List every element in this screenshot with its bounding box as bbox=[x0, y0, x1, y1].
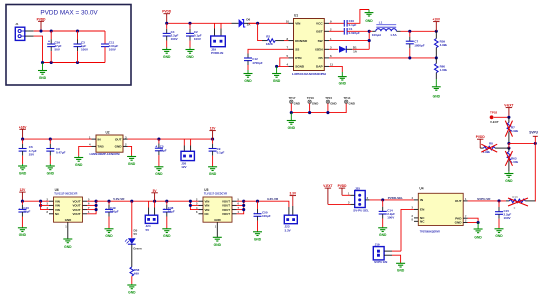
svg-text:GND: GND bbox=[505, 179, 513, 183]
power flag 5V bbox=[151, 189, 157, 201]
ground (U4 GND) bbox=[474, 223, 483, 240]
capacitor C40 bbox=[18, 201, 30, 227]
capacitor C10 bbox=[344, 19, 356, 27]
U2 pin stubs and numbers bbox=[89, 135, 128, 146]
svg-text:ISEN: ISEN bbox=[315, 48, 323, 52]
svg-text:R8: R8 bbox=[489, 141, 493, 145]
power flag PVDD (divider) bbox=[476, 135, 486, 148]
node dots OUT rail bbox=[157, 138, 160, 141]
capacitor C3 bbox=[74, 31, 89, 63]
svg-text:VOUT: VOUT bbox=[72, 212, 80, 216]
wire U2 GND pin to ground bbox=[128, 146, 132, 155]
wire U2 OUT rail bbox=[128, 138, 213, 140]
svg-text:25V: 25V bbox=[29, 153, 34, 157]
power flag PVDD (bottom) bbox=[338, 184, 348, 195]
svg-text:GND: GND bbox=[474, 236, 482, 240]
node dots FB bbox=[408, 56, 411, 59]
J1 pin stubs bbox=[25, 30, 34, 32]
resistor R16 (DNP) bbox=[506, 195, 535, 210]
node dots 5V rail bbox=[107, 200, 110, 203]
svg-text:GND: GND bbox=[433, 95, 441, 99]
wire TAB to ground bbox=[79, 146, 92, 156]
node dots SW bbox=[368, 30, 371, 33]
node dot bbox=[256, 22, 259, 25]
ground (C15) bbox=[495, 228, 504, 238]
IC U5 3.3V regulator bbox=[203, 188, 232, 222]
wire +16V rail bbox=[23, 138, 92, 140]
wire bottom rail in box bbox=[43, 62, 106, 64]
svg-text:100V: 100V bbox=[504, 216, 511, 220]
node dots output bbox=[408, 30, 411, 33]
svg-text:GND: GND bbox=[128, 162, 136, 166]
node dots divider bbox=[507, 142, 510, 145]
capacitor C11 bbox=[101, 41, 118, 52]
svg-text:R2: R2 bbox=[266, 34, 270, 38]
svg-text:SVPU: SVPU bbox=[529, 131, 538, 135]
capacitor C1 bbox=[344, 27, 360, 35]
resistor R2 182K bbox=[262, 34, 289, 46]
svg-text:VOUT: VOUT bbox=[222, 212, 230, 216]
svg-text:100V: 100V bbox=[171, 37, 178, 41]
ground (C6) bbox=[18, 164, 27, 175]
svg-text:GND: GND bbox=[349, 101, 355, 105]
svg-text:100µH: 100µH bbox=[372, 33, 381, 37]
svg-text:RON/SD: RON/SD bbox=[295, 39, 308, 43]
test point TP17 bbox=[289, 96, 300, 105]
capacitor C8 bbox=[46, 139, 65, 164]
power flag PVDD bbox=[162, 10, 172, 24]
capacitor C15 bbox=[495, 201, 511, 228]
svg-text:NC: NC bbox=[420, 219, 425, 223]
svg-text:100V: 100V bbox=[194, 37, 201, 41]
ground (test rail) bbox=[287, 113, 296, 130]
svg-text:GND: GND bbox=[214, 243, 222, 247]
svg-text:GND: GND bbox=[163, 55, 171, 59]
svg-text:GND: GND bbox=[105, 234, 113, 238]
node dots bbox=[21, 138, 24, 141]
svg-text:U5: U5 bbox=[204, 188, 208, 192]
svg-text:V-EXT: V-EXT bbox=[504, 104, 513, 108]
svg-text:EN: EN bbox=[420, 208, 425, 212]
svg-text:47µF: 47µF bbox=[160, 148, 167, 152]
svg-text:100V: 100V bbox=[109, 48, 116, 52]
net label SVPU bbox=[529, 131, 538, 144]
wire top rail in box bbox=[34, 30, 105, 32]
inductor L1 bbox=[369, 21, 397, 37]
diode D6 bbox=[232, 18, 258, 28]
wire EN down to J19 bbox=[401, 209, 414, 251]
wire U5 outputs join bbox=[237, 201, 244, 214]
resistor R60 bbox=[435, 58, 448, 79]
connector J23 3.3V bbox=[284, 206, 297, 232]
power flag 12V bbox=[209, 127, 216, 140]
wire test point rail bbox=[291, 104, 346, 113]
ground (C8) bbox=[46, 164, 55, 175]
capacitor C38 bbox=[163, 201, 175, 228]
capacitor C7 bbox=[406, 31, 425, 58]
node dot bbox=[477, 221, 480, 224]
svg-text:Green: Green bbox=[133, 247, 142, 251]
U1 left pin stubs and numbers bbox=[286, 20, 294, 67]
power flag 12V (bottom) bbox=[19, 188, 26, 201]
resistor R8 (DNP) bbox=[480, 141, 509, 154]
wire PAD/GND to ground bbox=[468, 218, 479, 222]
ground (C9) bbox=[208, 166, 217, 176]
wire down to R2 bbox=[258, 23, 262, 40]
svg-text:GND: GND bbox=[339, 81, 347, 85]
wire J25 pin2 to U4 IN bbox=[369, 199, 414, 201]
ground (C10) bbox=[365, 10, 374, 23]
svg-text:0.1µF: 0.1µF bbox=[217, 150, 225, 154]
svg-text:4.99k: 4.99k bbox=[511, 129, 519, 133]
wire U4 OUT rail bbox=[468, 200, 507, 202]
svg-text:OUT: OUT bbox=[455, 199, 462, 203]
wire 12V rail to U6 bbox=[22, 200, 49, 202]
test point TP15 bbox=[325, 96, 336, 105]
svg-text:TP15: TP15 bbox=[325, 96, 332, 100]
svg-text:R16: R16 bbox=[512, 195, 518, 199]
ground (U5 GND pin) bbox=[213, 222, 222, 247]
svg-text:GND: GND bbox=[330, 101, 336, 105]
svg-text:100µF: 100µF bbox=[110, 210, 119, 214]
wire BST to C1 bbox=[329, 30, 344, 32]
svg-text:10µF: 10µF bbox=[168, 210, 175, 214]
node dot bbox=[507, 116, 510, 119]
svg-text:1.5A: 1.5A bbox=[390, 33, 397, 37]
svg-text:L1: L1 bbox=[379, 21, 383, 25]
svg-text:GND: GND bbox=[209, 172, 217, 176]
ground (TAB) bbox=[74, 156, 83, 167]
svg-text:TP52: TP52 bbox=[490, 110, 498, 114]
node dots U6 out bbox=[95, 200, 98, 203]
wire J1 pin2 to bottom rail bbox=[34, 36, 43, 62]
wire C1 to SW node bbox=[347, 30, 369, 32]
wire into U5 bbox=[190, 201, 198, 209]
svg-text:SVPU EN: SVPU EN bbox=[374, 260, 387, 264]
power flag 3.3V bbox=[290, 192, 297, 206]
node dots bottom rail bbox=[41, 61, 44, 64]
ground (C4) bbox=[162, 48, 171, 59]
wire U6 outputs join bbox=[87, 201, 96, 214]
power flag +10V bbox=[433, 18, 441, 32]
connector J29 PVDD-IN bbox=[211, 23, 226, 55]
ground (J19) bbox=[396, 263, 405, 273]
ground (C2) bbox=[186, 48, 195, 59]
wire TP52 to node bbox=[494, 116, 509, 118]
svg-text:SS: SS bbox=[295, 48, 299, 52]
svg-text:PVDD-IN: PVDD-IN bbox=[211, 51, 223, 55]
svg-text:GND: GND bbox=[186, 55, 194, 59]
svg-text:GND: GND bbox=[273, 79, 281, 83]
test point TP14 bbox=[344, 96, 355, 105]
node dot bbox=[275, 65, 278, 68]
wire SW to node bbox=[329, 40, 369, 42]
wire U6 input bends bbox=[41, 201, 49, 209]
capacitor C2 bbox=[186, 23, 202, 47]
svg-text:499: 499 bbox=[134, 272, 139, 276]
svg-text:GND: GND bbox=[312, 101, 318, 105]
svg-text:GND: GND bbox=[163, 234, 171, 238]
ground (C14) bbox=[378, 227, 387, 237]
capacitor C50 bbox=[254, 201, 271, 231]
IC U4 TPS7B69 bbox=[418, 186, 463, 233]
capacitor C9 bbox=[209, 139, 225, 166]
connector J25 SV-PU SEL bbox=[348, 186, 369, 212]
svg-text:OUT: OUT bbox=[115, 137, 122, 141]
svg-text:TP16: TP16 bbox=[307, 96, 314, 100]
capacitor C59 bbox=[47, 31, 61, 63]
svg-text:5V: 5V bbox=[146, 228, 150, 232]
wire SS to C12 bbox=[248, 49, 289, 53]
svg-text:3.3V-VR: 3.3V-VR bbox=[267, 197, 279, 201]
svg-text:GND: GND bbox=[64, 245, 72, 249]
svg-text:100µF: 100µF bbox=[262, 214, 271, 218]
ground (C38) bbox=[162, 228, 171, 238]
svg-text:LM2940IMP-12/NOPB: LM2940IMP-12/NOPB bbox=[90, 152, 121, 156]
power flag PVDD (in box) bbox=[37, 17, 47, 31]
svg-text:3.3V: 3.3V bbox=[290, 192, 297, 196]
svg-text:4.99k: 4.99k bbox=[440, 43, 448, 47]
svg-text:VCC: VCC bbox=[316, 22, 323, 26]
svg-text:TP17: TP17 bbox=[289, 96, 296, 100]
svg-text:12V: 12V bbox=[181, 165, 186, 169]
svg-text:GND: GND bbox=[128, 290, 136, 294]
svg-text:GND: GND bbox=[379, 233, 387, 237]
svg-text:+: + bbox=[48, 39, 50, 43]
svg-text:GND: GND bbox=[244, 79, 252, 83]
ground (R58) bbox=[127, 284, 136, 294]
wire right loop C11 bbox=[104, 31, 106, 63]
svg-text:J25: J25 bbox=[355, 186, 360, 190]
svg-text:PVDD: PVDD bbox=[338, 184, 348, 188]
wire 5V rail bbox=[96, 200, 190, 202]
wire 3.3V rail bbox=[244, 201, 289, 207]
ground (C5) bbox=[154, 166, 163, 176]
svg-text:+10V: +10V bbox=[433, 18, 441, 22]
svg-text:SGND: SGND bbox=[295, 65, 305, 69]
IC U2 LM2940 bbox=[90, 130, 124, 156]
svg-text:VIN: VIN bbox=[295, 22, 301, 26]
svg-text:3.3V: 3.3V bbox=[285, 228, 291, 232]
power flag V-EXT (bottom) bbox=[323, 184, 332, 204]
svg-text:GND: GND bbox=[19, 171, 27, 175]
node dots bbox=[21, 200, 24, 203]
ground (C40) bbox=[18, 227, 27, 237]
svg-text:1.00k: 1.00k bbox=[440, 68, 448, 72]
diode D1 bbox=[329, 46, 369, 54]
IC U6 5V regulator bbox=[54, 188, 83, 222]
svg-text:SW: SW bbox=[318, 39, 323, 43]
node dot SVPU bbox=[534, 142, 537, 145]
node dots U5 out bbox=[242, 200, 245, 203]
svg-text:182K: 182K bbox=[266, 42, 274, 46]
svg-text:50V: 50V bbox=[55, 48, 60, 52]
resistor R59 bbox=[435, 31, 448, 58]
svg-text:GND: GND bbox=[495, 234, 503, 238]
U4 pin stubs and numbers bbox=[412, 196, 468, 223]
resistor R63 (DNP) bbox=[505, 148, 518, 171]
svg-text:PVDD: PVDD bbox=[476, 135, 486, 139]
svg-text:RTN: RTN bbox=[295, 56, 302, 60]
svg-text:PVDD: PVDD bbox=[37, 17, 47, 21]
wire DAP to ground bbox=[329, 66, 342, 72]
wire L1 to +10V node bbox=[397, 30, 401, 32]
svg-text:DAP: DAP bbox=[316, 65, 323, 69]
capacitor C49 bbox=[105, 201, 119, 228]
svg-text:10: 10 bbox=[286, 20, 290, 24]
wire J19 pin1 to EN riser bbox=[392, 250, 401, 252]
svg-text:PVDD MAX = 30.0V: PVDD MAX = 30.0V bbox=[40, 10, 98, 17]
connector J24 5V bbox=[145, 201, 157, 232]
svg-text:4700pF: 4700pF bbox=[252, 61, 263, 65]
resistor R7 (DNP) bbox=[505, 117, 518, 143]
svg-text:TLV1117-50CDCYR: TLV1117-50CDCYR bbox=[54, 192, 77, 196]
svg-text:100V: 100V bbox=[81, 48, 88, 52]
wire V-EXT to J25 pin3 bbox=[328, 203, 351, 205]
svg-text:U6: U6 bbox=[55, 188, 59, 192]
resistor R58 bbox=[130, 267, 140, 284]
svg-text:GND: GND bbox=[19, 233, 27, 237]
U5 pin stubs and numbers bbox=[196, 197, 239, 214]
svg-text:TAB: TAB bbox=[98, 145, 105, 149]
svg-text:V-EXT: V-EXT bbox=[490, 120, 499, 124]
svg-text:U4: U4 bbox=[419, 186, 423, 190]
capacitor C4 bbox=[163, 23, 179, 47]
svg-text:LM5010ASD/NOPB: LM5010ASD/NOPB bbox=[292, 72, 326, 76]
ground (C49) bbox=[105, 228, 114, 238]
ground (SGND) bbox=[272, 66, 281, 82]
wire FB rail bbox=[329, 57, 436, 59]
svg-text:SVPU-VR: SVPU-VR bbox=[477, 197, 491, 201]
svg-text:TP14: TP14 bbox=[344, 96, 351, 100]
wire PVDD rail bbox=[167, 22, 232, 24]
ground (U2 GND) bbox=[127, 156, 136, 166]
wire to SVPU bbox=[509, 142, 535, 144]
wire C10 to ground bbox=[347, 10, 369, 24]
ground (C50) bbox=[253, 231, 262, 242]
svg-text:12V: 12V bbox=[210, 127, 217, 131]
wire PVDD to J25 pin1 bbox=[342, 194, 351, 196]
svg-text:GND: GND bbox=[254, 238, 262, 242]
power flag +16V bbox=[19, 125, 27, 139]
svg-text:V-EXT: V-EXT bbox=[323, 184, 332, 188]
node dot C50 bbox=[256, 200, 259, 203]
LED D5 bbox=[125, 201, 142, 267]
wire J19 pin2 to ground bbox=[392, 255, 401, 262]
svg-text:U2: U2 bbox=[106, 130, 110, 134]
svg-text:GND: GND bbox=[397, 269, 405, 273]
svg-text:GND: GND bbox=[365, 19, 373, 23]
svg-text:5.0V-VR: 5.0V-VR bbox=[113, 197, 125, 201]
wire RTN/SGND to ground bbox=[280, 58, 289, 67]
ground (C12) bbox=[244, 70, 253, 83]
svg-text:GND: GND bbox=[47, 171, 55, 175]
svg-text:GND: GND bbox=[214, 218, 220, 222]
svg-text:10µF: 10µF bbox=[23, 210, 30, 214]
node dots bbox=[165, 22, 168, 25]
svg-text:GND: GND bbox=[65, 218, 71, 222]
capacitor C12 bbox=[244, 57, 263, 70]
svg-text:GND: GND bbox=[455, 221, 463, 225]
svg-text:GND: GND bbox=[294, 101, 300, 105]
node dots test rail bbox=[290, 111, 293, 114]
note frame bbox=[6, 5, 131, 86]
wire R16 to SVPU riser corner bbox=[534, 200, 536, 203]
svg-text:GND: GND bbox=[39, 76, 47, 80]
U1 right pin stubs and numbers bbox=[324, 20, 333, 67]
node dots top rail bbox=[39, 29, 42, 32]
svg-text:PVDD: PVDD bbox=[162, 10, 172, 14]
node dots U5 in bbox=[189, 200, 192, 203]
svg-text:GND: GND bbox=[155, 172, 163, 176]
svg-text:TLV1117-33CDCYR: TLV1117-33CDCYR bbox=[204, 192, 227, 196]
ground (DAP) bbox=[338, 72, 347, 85]
connector J19 SVPU EN bbox=[373, 242, 392, 264]
capacitor C6 bbox=[19, 139, 37, 164]
svg-text:TPS7B6950QDRVR: TPS7B6950QDRVR bbox=[420, 229, 440, 233]
ground (R60) bbox=[432, 79, 441, 99]
node dot C14 bbox=[381, 198, 384, 201]
wire VCC to C10 bbox=[329, 22, 344, 24]
test point TP52 bbox=[490, 110, 499, 124]
wire SVPU vertical to bottom bbox=[534, 143, 536, 201]
net V-EXT flag bbox=[504, 104, 513, 118]
wire divider link bbox=[508, 143, 510, 148]
svg-text:D6: D6 bbox=[246, 18, 250, 22]
ground (U6 GND pin) bbox=[63, 222, 72, 249]
connector J26 12V bbox=[181, 139, 194, 169]
svg-text:BST: BST bbox=[316, 30, 322, 34]
svg-text:0.47µF: 0.47µF bbox=[56, 151, 66, 155]
svg-text:U1: U1 bbox=[294, 14, 298, 18]
node dot C15 bbox=[497, 199, 500, 202]
test point TP16 bbox=[307, 96, 318, 105]
svg-text:PVDD-SEL: PVDD-SEL bbox=[388, 196, 403, 200]
capacitor C14 bbox=[379, 200, 395, 227]
svg-text:GND: GND bbox=[75, 163, 83, 167]
svg-text:1800pF: 1800pF bbox=[414, 43, 425, 47]
wire TP15 stub bbox=[327, 104, 329, 113]
wire D6 to VIN bbox=[249, 22, 289, 24]
op-amp/IC U1 LM5010A bbox=[292, 14, 326, 76]
svg-text:100V: 100V bbox=[387, 216, 394, 220]
svg-text:12V: 12V bbox=[20, 188, 27, 192]
ground (note box) bbox=[38, 63, 47, 80]
svg-text:SV-PU SEL: SV-PU SEL bbox=[353, 209, 369, 213]
ground (R63) bbox=[504, 171, 513, 182]
svg-text:+16V: +16V bbox=[19, 125, 27, 129]
svg-text:J19: J19 bbox=[375, 242, 380, 246]
svg-text:J1: J1 bbox=[15, 22, 19, 26]
svg-text:GND: GND bbox=[288, 126, 296, 130]
U6 pin stubs and numbers bbox=[47, 197, 90, 214]
wire SW node vertical bbox=[368, 31, 370, 49]
capacitor C5 bbox=[155, 139, 167, 166]
svg-text:5V: 5V bbox=[134, 232, 138, 236]
svg-text:GND: GND bbox=[115, 145, 123, 149]
connector J1 bbox=[15, 22, 25, 40]
wire TP16 stub bbox=[309, 104, 311, 113]
